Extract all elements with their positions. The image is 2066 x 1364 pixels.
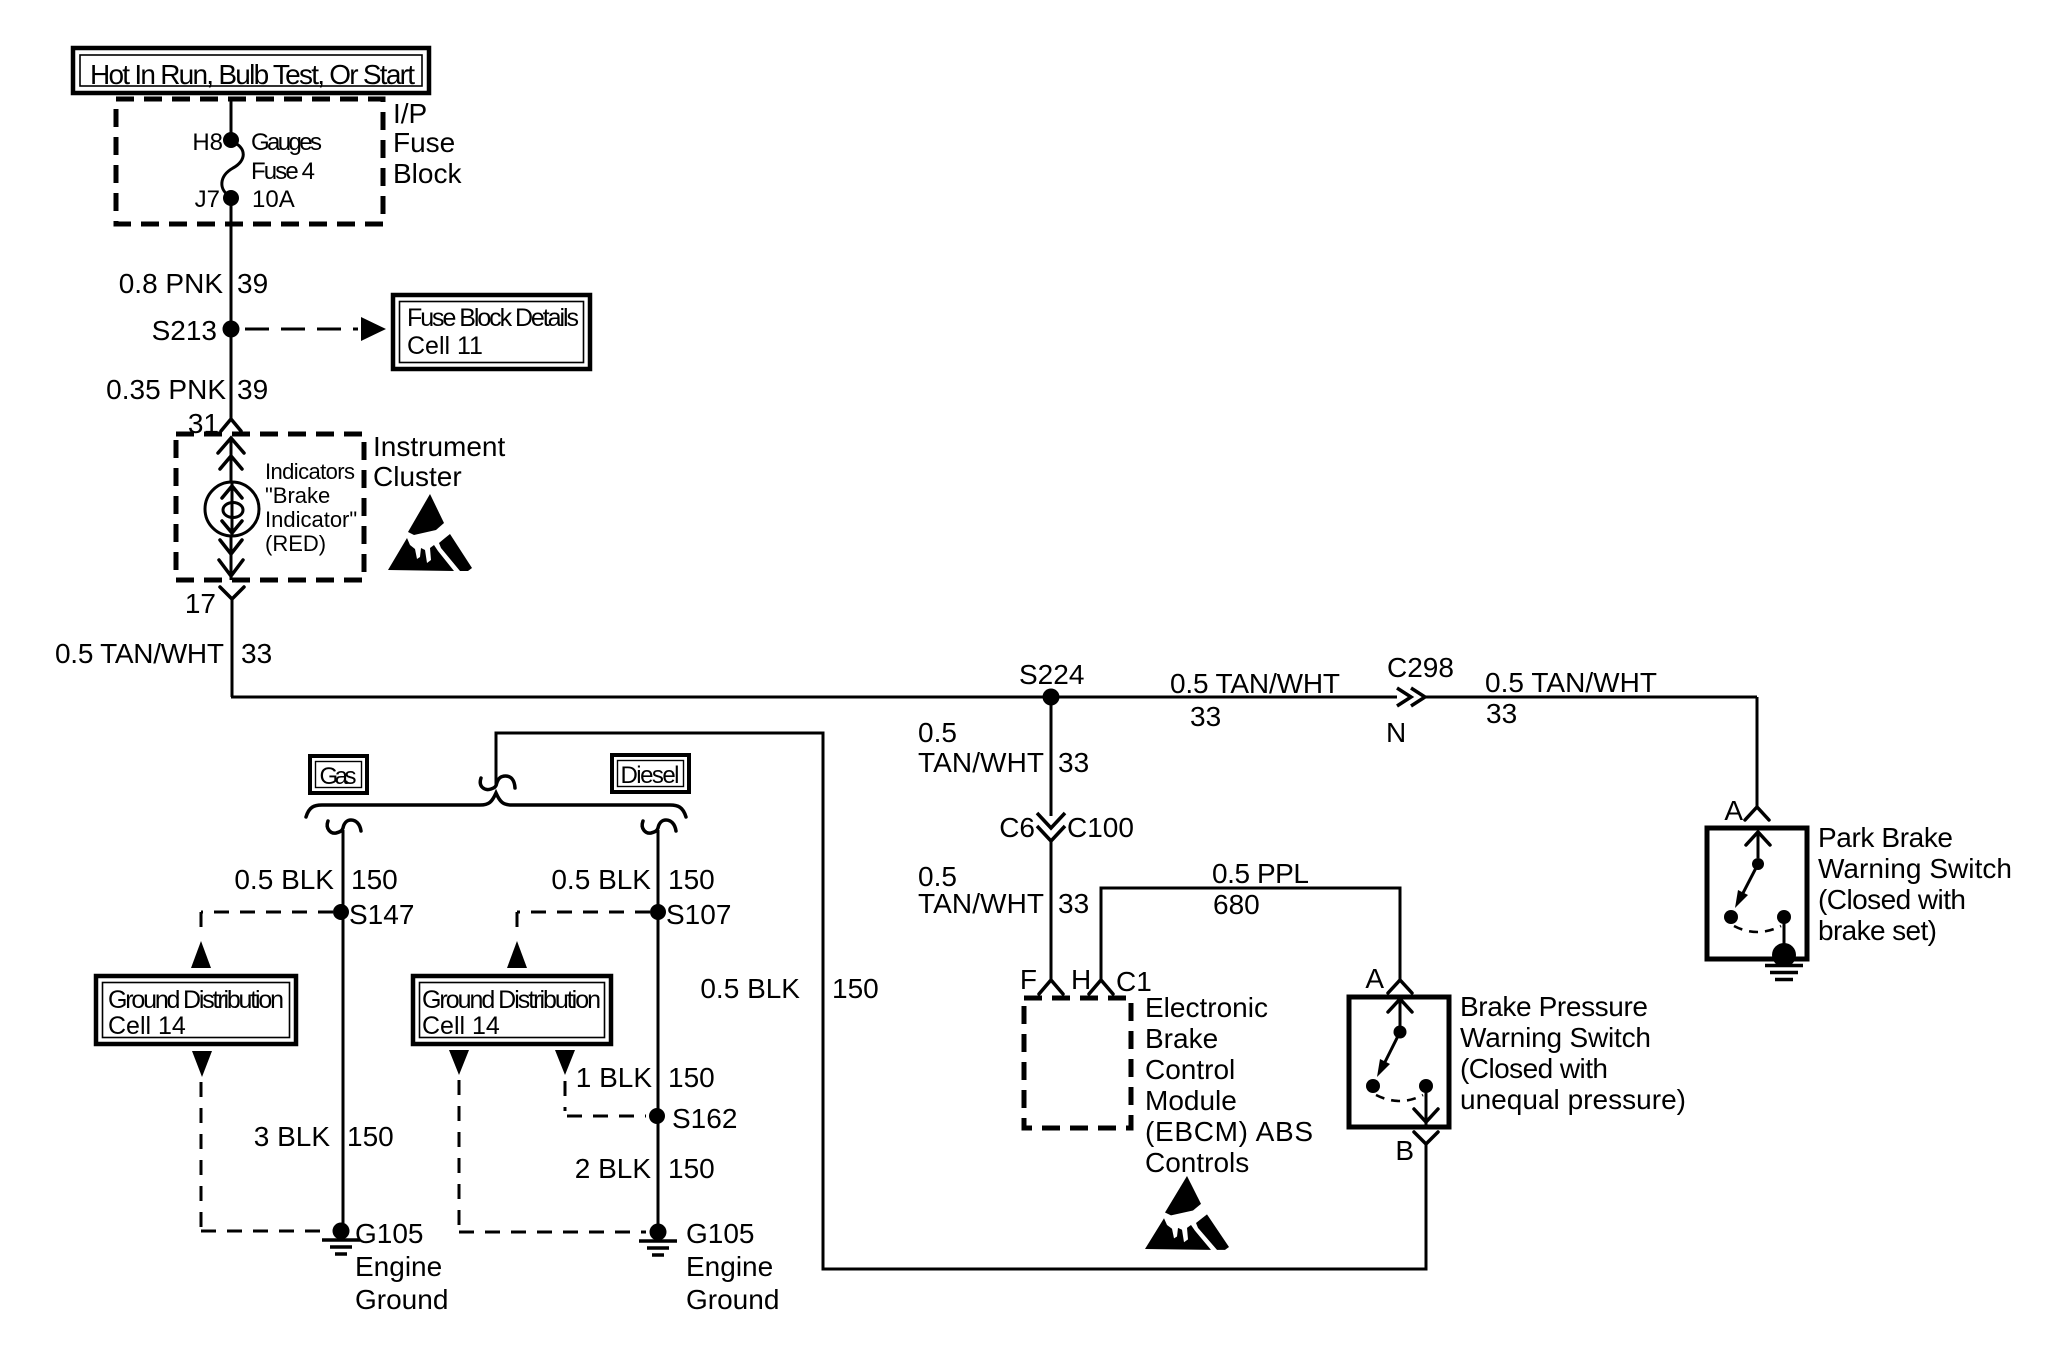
connector pin F female Y [1039, 980, 1063, 994]
wire break symbol gas branch [327, 820, 361, 833]
reference arrow down (middle left) [449, 1050, 469, 1075]
wire pin 17 down to main run [231, 599, 234, 697]
reference arrow up (middle) [507, 941, 527, 968]
wire label 0.5 TAN/WHT 33 (S224 to C100) [918, 717, 1089, 778]
svg-text:0.5 BLK: 0.5 BLK [551, 864, 651, 895]
svg-text:Control: Control [1145, 1054, 1235, 1085]
node S162 [649, 1103, 737, 1134]
svg-text:H: H [1071, 964, 1091, 995]
svg-text:Ground Distribution: Ground Distribution [108, 986, 284, 1014]
svg-text:Warning Switch: Warning Switch [1818, 853, 2012, 884]
svg-text:150: 150 [832, 973, 879, 1004]
pin labels F H C1 [1020, 964, 1152, 997]
dashed reference down to G105 (left) [201, 1082, 330, 1231]
svg-text:Cell 14: Cell 14 [422, 1012, 500, 1040]
reference arrow down (middle right) [555, 1050, 575, 1075]
connector pin H female Y [1089, 980, 1113, 994]
svg-text:0.5 TAN/WHT: 0.5 TAN/WHT [55, 638, 224, 669]
svg-text:Instrument: Instrument [373, 431, 505, 462]
svg-text:Cell 14: Cell 14 [108, 1012, 186, 1040]
connector pin A female Y [1388, 980, 1412, 993]
svg-text:Indicator": Indicator" [265, 507, 357, 532]
exit chevrons below lamp [219, 537, 243, 580]
wire label 2 BLK 150 [575, 1153, 715, 1184]
wire break symbol diesel branch [642, 820, 676, 833]
connector pin 31 female Y [221, 419, 241, 431]
node S147 [333, 899, 414, 930]
wire label 0.5 TAN/WHT 33 [55, 638, 272, 669]
svg-text:C100: C100 [1067, 812, 1134, 843]
svg-text:0.5 TAN/WHT: 0.5 TAN/WHT [1170, 668, 1340, 699]
svg-text:TAN/WHT: TAN/WHT [918, 888, 1044, 919]
indicator lamp "Brake Indicator" (RED) [205, 482, 259, 537]
svg-text:G105: G105 [686, 1218, 755, 1249]
ground G105 (gas) [322, 1218, 448, 1315]
svg-text:Diesel: Diesel [621, 762, 680, 789]
svg-text:Gauges: Gauges [251, 129, 322, 156]
Diesel option box [612, 755, 689, 792]
node H8 [223, 132, 239, 148]
I/P Fuse Block dashed box [116, 99, 383, 224]
svg-text:S213: S213 [152, 315, 217, 346]
Brake Pressure Warning Switch box [1349, 997, 1449, 1127]
svg-text:Cell 11: Cell 11 [407, 332, 483, 360]
svg-text:S224: S224 [1019, 659, 1084, 690]
ground at park brake switch [1765, 943, 1803, 980]
lamp text labels [265, 459, 357, 556]
Gas option box [310, 756, 367, 793]
svg-text:(EBCM) ABS: (EBCM) ABS [1145, 1116, 1313, 1147]
svg-text:"Brake: "Brake [265, 483, 330, 508]
svg-text:J7: J7 [195, 186, 220, 213]
svg-text:10A: 10A [252, 186, 295, 213]
svg-text:F: F [1020, 964, 1037, 995]
svg-text:3 BLK: 3 BLK [254, 1121, 331, 1152]
label Electronic Brake Control Module (EBCM) ABS Controls [1145, 992, 1313, 1178]
wire 0.5 PPL 680 from pin H to pin A [1101, 888, 1400, 979]
svg-text:680: 680 [1213, 889, 1260, 920]
wire J7 to S213 to pin 31 [230, 198, 233, 418]
svg-text:33: 33 [1486, 698, 1517, 729]
svg-text:0.5 PPL: 0.5 PPL [1212, 858, 1309, 889]
node S107 [650, 899, 731, 930]
svg-text:Gas: Gas [320, 763, 357, 790]
wire label 0.5 TAN/WHT 33 (C298 to park brake switch) [1485, 667, 1657, 729]
svg-text:150: 150 [668, 1062, 715, 1093]
wire label 0.5 BLK 150 (switch return) [700, 973, 878, 1004]
svg-text:33: 33 [1058, 888, 1089, 919]
Instrument Cluster dashed box [176, 434, 364, 580]
Park Brake Warning Switch box [1707, 828, 1807, 959]
options brace (Gas / Diesel) [306, 793, 686, 817]
wire label 1 BLK 150 [576, 1062, 715, 1093]
wire label 0.5 PPL 680 [1212, 858, 1309, 920]
svg-text:S147: S147 [349, 899, 414, 930]
svg-text:S107: S107 [666, 899, 731, 930]
svg-text:33: 33 [1058, 747, 1089, 778]
node S224 [1019, 659, 1084, 706]
svg-text:S162: S162 [672, 1103, 737, 1134]
EBCM dashed box [1024, 998, 1131, 1128]
svg-text:33: 33 [1190, 701, 1221, 732]
svg-text:(Closed with: (Closed with [1460, 1053, 1608, 1084]
svg-text:brake set): brake set) [1818, 915, 1937, 946]
svg-text:150: 150 [351, 864, 398, 895]
node J7 [223, 190, 239, 206]
svg-text:Fuse 4: Fuse 4 [251, 158, 315, 185]
label Instrument Cluster [373, 431, 505, 492]
reference arrow up (left) [191, 941, 211, 968]
main wire run 0.5 TAN/WHT along y=697 [231, 696, 1397, 699]
svg-text:(Closed with: (Closed with [1818, 884, 1966, 915]
wire label 3 BLK 150 [254, 1121, 394, 1152]
wire label 0.35 PNK 39 [106, 374, 268, 405]
connector pin 17 female Y below cluster [220, 587, 244, 599]
svg-text:C6: C6 [999, 812, 1035, 843]
diesel branch wire to ground [657, 830, 660, 1232]
svg-text:0.5 BLK: 0.5 BLK [700, 973, 800, 1004]
connector pin 31 male chevrons inside cluster [218, 437, 244, 483]
svg-text:150: 150 [668, 864, 715, 895]
svg-text:unequal pressure): unequal pressure) [1460, 1084, 1686, 1115]
power feed label box "Hot In Run, Bulb Test, Or Start" [73, 48, 429, 93]
dashed reference S107 to ground distribution [517, 912, 650, 936]
svg-text:2 BLK: 2 BLK [575, 1153, 652, 1184]
svg-text:Indicators: Indicators [265, 459, 355, 484]
svg-text:Warning Switch: Warning Switch [1460, 1022, 1651, 1053]
svg-text:Ground Distribution: Ground Distribution [422, 986, 601, 1014]
reference box Ground Distribution Cell 14 (middle) [413, 976, 611, 1044]
svg-text:C298: C298 [1387, 652, 1454, 683]
reference box Ground Distribution Cell 14 (left) [96, 976, 296, 1044]
label I/P Fuse Block [393, 98, 462, 189]
wire from fuse block top to H8 [230, 100, 233, 140]
svg-text:33: 33 [241, 638, 272, 669]
svg-text:Ground: Ground [686, 1284, 779, 1315]
svg-text:N: N [1386, 717, 1406, 748]
wire label 0.8 PNK 39 [119, 268, 268, 299]
svg-text:Engine: Engine [355, 1251, 442, 1282]
ESD symbol EBCM [1145, 1176, 1229, 1250]
node S213 [152, 315, 240, 346]
wire C100 down to pin F [1050, 841, 1053, 979]
wire label 0.5 BLK 150 (gas) [234, 864, 397, 895]
connector C6 C100 [999, 812, 1134, 843]
dashed reference down to G105 (diesel) [459, 1080, 646, 1232]
svg-text:39: 39 [237, 374, 268, 405]
dashed reference arrow S213 to Fuse Block Details [245, 317, 386, 341]
svg-text:Electronic: Electronic [1145, 992, 1268, 1023]
switch internals brake pressure [1366, 999, 1438, 1125]
svg-text:0.5: 0.5 [918, 717, 957, 748]
svg-text:I/P: I/P [393, 98, 427, 129]
wire label 0.5 TAN/WHT 33 (C100 to EBCM) [918, 861, 1089, 919]
svg-text:Controls: Controls [1145, 1147, 1249, 1178]
dashed reference S147 to ground distribution [201, 912, 333, 936]
reference box Fuse Block Details Cell 11 [393, 295, 590, 369]
svg-text:Fuse: Fuse [393, 127, 455, 158]
connector pin A female Y (park brake) [1745, 807, 1769, 820]
svg-text:Fuse Block Details: Fuse Block Details [407, 304, 579, 332]
wire label 0.5 BLK 150 (diesel) [551, 864, 714, 895]
svg-text:0.5 BLK: 0.5 BLK [234, 864, 334, 895]
svg-text:Module: Module [1145, 1085, 1237, 1116]
wire pin B ground return path [496, 733, 1426, 1269]
svg-text:Cluster: Cluster [373, 461, 462, 492]
dashed reference to S162 [565, 1081, 646, 1116]
switch internals park brake [1724, 832, 1791, 950]
fuse Gauges Fuse 4 10A (element between H8 and J7) [192, 129, 322, 213]
svg-text:150: 150 [668, 1153, 715, 1184]
svg-text:TAN/WHT: TAN/WHT [918, 747, 1044, 778]
wire C298 to park brake switch [1756, 697, 1759, 806]
gas branch wire to ground [342, 830, 345, 1231]
svg-text:Engine: Engine [686, 1251, 773, 1282]
connector pin B female Y [1414, 1132, 1438, 1144]
svg-text:Park Brake: Park Brake [1818, 822, 1953, 853]
label Brake Pressure Warning Switch [1460, 991, 1686, 1115]
svg-text:17: 17 [185, 588, 216, 619]
wire label 0.5 TAN/WHT 33 (S224 to C298) [1170, 668, 1340, 732]
reference arrow down (left) [192, 1051, 212, 1077]
svg-text:Brake Pressure: Brake Pressure [1460, 991, 1648, 1022]
wire S224 branch down [1050, 697, 1053, 816]
svg-text:B: B [1395, 1135, 1414, 1166]
svg-text:A: A [1365, 963, 1384, 994]
svg-text:Hot In Run, Bulb Test, Or Star: Hot In Run, Bulb Test, Or Start [90, 59, 415, 90]
svg-text:0.5 TAN/WHT: 0.5 TAN/WHT [1485, 667, 1657, 698]
svg-text:Brake: Brake [1145, 1023, 1218, 1054]
svg-text:0.8 PNK: 0.8 PNK [119, 268, 224, 299]
svg-text:Block: Block [393, 158, 462, 189]
svg-text:39: 39 [237, 268, 268, 299]
svg-text:G105: G105 [355, 1218, 424, 1249]
svg-text:H8: H8 [192, 129, 223, 156]
ground G105 (diesel) [639, 1218, 779, 1315]
connector C298 pin N [1386, 652, 1454, 748]
svg-text:1 BLK: 1 BLK [576, 1062, 653, 1093]
label Park Brake Warning Switch [1818, 822, 2012, 946]
svg-text:A: A [1724, 795, 1743, 826]
svg-text:(RED): (RED) [265, 531, 326, 556]
svg-text:150: 150 [347, 1121, 394, 1152]
wire break symbol at options split [480, 776, 515, 790]
ESD symbol instrument cluster [388, 494, 472, 571]
svg-text:Ground: Ground [355, 1284, 448, 1315]
svg-text:0.35 PNK: 0.35 PNK [106, 374, 226, 405]
